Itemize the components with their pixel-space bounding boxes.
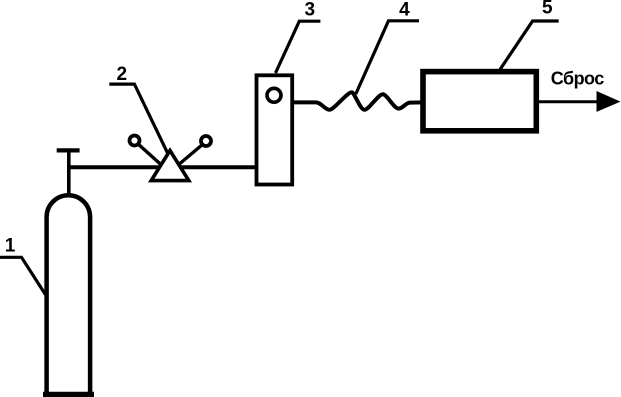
cylinder valve handle [57,148,80,152]
svg-text:Сброс: Сброс [551,69,604,89]
label Сброс [551,69,604,89]
leader line for label 1 [0,257,47,297]
discharge arrow line [539,100,601,103]
svg-text:1: 1 [5,236,16,257]
leader line for label 4 [356,21,419,94]
left gauge circle [130,136,140,146]
indicator circle on block 3 [267,88,281,102]
leader line for label 5 [500,21,559,70]
label 5 [542,0,553,19]
hose 4 (wavy line) from block 3 to block 5 [292,92,423,110]
block 5 (discharge unit) [423,72,536,131]
label 4 [399,0,410,20]
right gauge circle [201,136,211,146]
leader line for label 3 [276,21,321,73]
label 1 [5,236,16,257]
svg-text:2: 2 [117,64,128,85]
wire from cylinder valve to reducer and block 3 [69,165,258,169]
discharge arrowhead [597,91,621,112]
svg-text:3: 3 [305,0,316,20]
label 3 [305,0,316,20]
right gauge stem [177,145,203,167]
svg-text:4: 4 [399,0,410,20]
reducer valve 2 (triangle) [151,151,189,181]
cylinder valve stem [67,149,71,196]
label 2 [117,64,128,85]
gas cylinder 1 [43,195,94,396]
svg-text:5: 5 [542,0,553,19]
left gauge stem [138,144,168,171]
leader line for label 2 [109,84,168,155]
block 3 (flow meter) [257,75,293,184]
